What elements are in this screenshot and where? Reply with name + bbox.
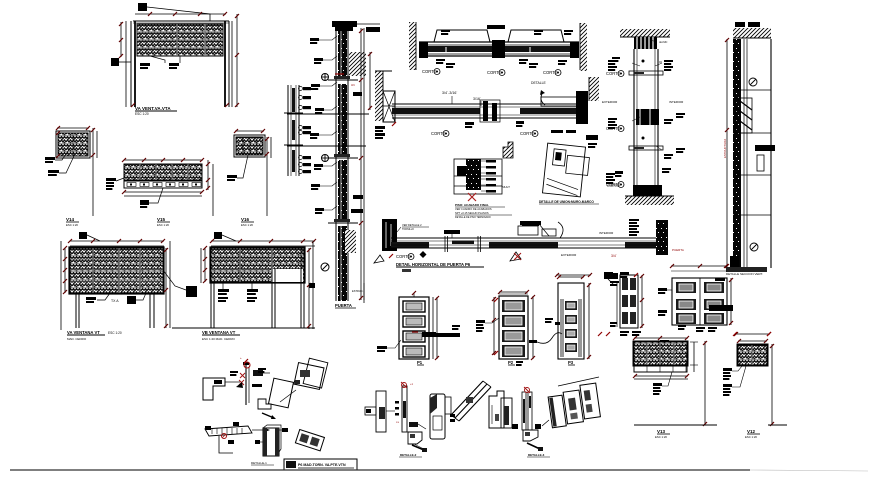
svg-text:ESC 1:20 MAD. CEDRO: ESC 1:20 MAD. CEDRO (202, 337, 236, 341)
svg-text:+: + (240, 356, 242, 360)
svg-text:MULT: MULT (502, 185, 510, 189)
svg-text:ESC 1:20: ESC 1:20 (135, 112, 149, 116)
svg-text:INTERIOR: INTERIOR (669, 100, 684, 104)
svg-text:PUERTA: PUERTA (672, 248, 684, 252)
svg-text:P3: P3 (568, 360, 574, 365)
svg-text:PUERTA: PUERTA (335, 303, 352, 308)
svg-text:EXTERIOR: EXTERIOR (602, 100, 618, 104)
svg-text:DETALLE DE UNION:MURO-MARCO: DETALLE DE UNION:MURO-MARCO (539, 200, 594, 204)
svg-text:MAD. CEDRO: MAD. CEDRO (67, 337, 87, 341)
svg-text:DETALLE-2: DETALLE-2 (400, 453, 417, 457)
svg-text:DETALLE-1: DETALLE-1 (251, 461, 267, 465)
svg-text:CORTE: CORTE (607, 184, 620, 188)
svg-text:V16: V16 (241, 217, 250, 222)
svg-text:3/4´-3/16´: 3/4´-3/16´ (442, 91, 458, 95)
svg-text:VA VENTANA VT: VA VENTANA VT (67, 330, 100, 335)
svg-text:ESC 1:20: ESC 1:20 (745, 435, 757, 439)
svg-text:PISO: ACABADO FINAL: PISO: ACABADO FINAL (455, 203, 489, 207)
svg-text:VA VENT.VA.VTA: VA VENT.VA.VTA (135, 106, 171, 111)
svg-text:P1: P1 (417, 360, 423, 365)
svg-text:DETALLE DE PISO TERMINADO: DETALLE DE PISO TERMINADO (455, 216, 491, 219)
svg-text:TX A: TX A (111, 299, 119, 303)
svg-text:VER DETALLE 2: VER DETALLE 2 (402, 223, 422, 227)
svg-text:ESC 1:20: ESC 1:20 (157, 223, 169, 227)
svg-text:VER CUADRO DE ACABADOS: VER CUADRO DE ACABADOS (455, 207, 492, 211)
svg-text:ESTRUCTURA: ESTRUCTURA (723, 139, 727, 158)
svg-text:det.MC: det.MC (659, 40, 667, 44)
svg-text:V14: V14 (66, 217, 75, 222)
svg-text:3/16´: 3/16´ (473, 97, 481, 101)
svg-text:VB VENTANA VT: VB VENTANA VT (202, 330, 236, 335)
svg-text:EXTERIOR: EXTERIOR (561, 253, 577, 257)
svg-text:V12: V12 (747, 429, 756, 434)
svg-text:V15: V15 (157, 217, 166, 222)
svg-text:ESC 1:20: ESC 1:20 (241, 223, 253, 227)
svg-text:P6 MAD.TORN. VA.PTE.VTN: P6 MAD.TORN. VA.PTE.VTN (298, 463, 346, 467)
svg-text:ESC 1:20: ESC 1:20 (655, 435, 667, 439)
svg-text:ESC 1:20: ESC 1:20 (108, 331, 122, 335)
svg-text:V13: V13 (657, 429, 666, 434)
svg-text:P2: P2 (508, 360, 514, 365)
svg-text:3/4: 3/4 (351, 83, 355, 87)
svg-text:DETAIL HORIZONTAL DE PUERTA P: DETAIL HORIZONTAL DE PUERTA P6 (396, 262, 471, 267)
svg-text:DETALLE: DETALLE (531, 81, 547, 85)
svg-text:INTERIOR: INTERIOR (599, 231, 614, 235)
svg-text:ESC 1:20: ESC 1:20 (66, 223, 78, 227)
svg-text:DETALLE SECCION VERT.: DETALLE SECCION VERT. (726, 272, 763, 276)
svg-text:ESTRUC.: ESTRUC. (352, 289, 364, 293)
svg-text:DETALLE-3: DETALLE-3 (528, 453, 545, 457)
svg-text:NPT +0.15 SEGUN PLANOS: NPT +0.15 SEGUN PLANOS (455, 211, 489, 215)
svg-text:TORNILLO: TORNILLO (402, 228, 414, 231)
svg-text:3/4´: 3/4´ (611, 254, 617, 258)
